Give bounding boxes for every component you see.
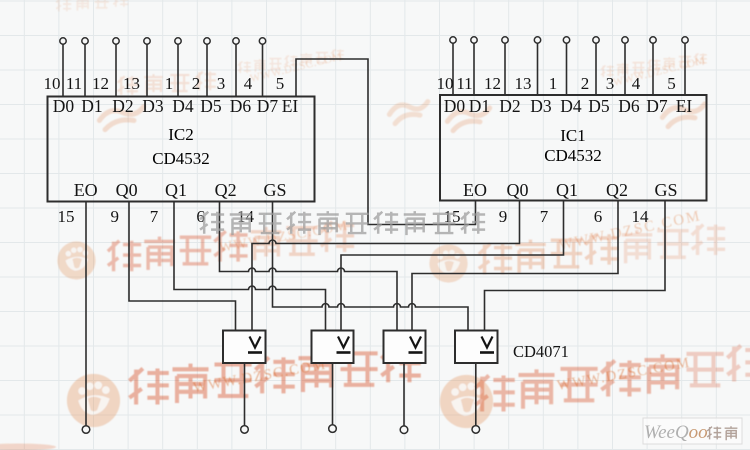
wire IC1 Q2 (pin 6) to gate U3 input B [412, 201, 618, 331]
input terminal and wire, IC1 D1 [471, 37, 477, 95]
wire gate U2 output to terminal [332, 363, 334, 425]
input terminal and wire, IC2 D2 [113, 38, 119, 97]
input terminal and wire, IC2 D7 [259, 38, 265, 97]
wire IC2 Q0 (pin 9) to gate U1 input A [129, 202, 236, 331]
output terminal U1 [241, 426, 249, 434]
svg-text:WeeQoo: WeeQoo [644, 422, 708, 443]
input terminal and wire, IC2 D0 [60, 38, 66, 97]
input terminal and wire, IC2 D3 [144, 38, 150, 97]
IC2 label [152, 125, 210, 168]
wire IC1 Q1 (pin 7) to gate U2 input B [341, 201, 564, 331]
input terminal and wire, IC1 D0 [450, 37, 456, 95]
input terminal and wire, IC1 D5 [593, 37, 599, 95]
OR gate U1 (CD4071) [223, 331, 266, 364]
OR gate U2 (CD4071) [312, 331, 354, 364]
input terminal and wire, IC1 D4 [563, 37, 569, 95]
input terminal and wire, IC2 D5 [204, 38, 210, 97]
input terminal and wire, IC2 D1 [82, 38, 88, 97]
wire IC2 Q1 (pin 7) to gate U2 input A (hops over crossings) [174, 202, 326, 331]
OR gate U4 (CD4071) [455, 331, 498, 364]
wire IC2 GS (pin 14) to gate U4 input A (hops over crossings) [273, 202, 469, 331]
wire gate U3 output to terminal [403, 363, 405, 426]
output terminal U3 [400, 426, 408, 434]
wire gate U4 output to terminal [475, 363, 477, 426]
IC IC1 (CD4532) body [440, 95, 707, 201]
IC IC2 (CD4532) body [48, 97, 315, 202]
wire IC2 Q2 (pin 6) to gate U3 input A (hops over crossings) [220, 202, 398, 331]
wire IC1 GS (pin 14) to gate U4 input B [485, 201, 666, 331]
IC1 label [544, 126, 602, 165]
output terminal U4 [472, 426, 480, 434]
wire IC2 EO (pin 15) to output terminal [85, 202, 87, 426]
input terminal and wire, IC1 D6 [622, 37, 628, 95]
input terminal and wire, IC1 EI [682, 37, 688, 95]
OR gate U3 (CD4071) [384, 331, 426, 364]
input terminal and wire, IC1 D3 [534, 37, 540, 95]
wire gate U1 output to terminal [244, 363, 246, 426]
output terminal U2 [329, 425, 337, 433]
output terminal EO [82, 426, 90, 434]
wire IC1 Q0 (pin 9) to gate U1 input B (hop over IC2 GS wire) [252, 201, 520, 331]
wire cascade: IC1 EO (pin 15) to IC2 EI (pin 5) [296, 59, 476, 225]
input terminal and wire, IC2 D4 [175, 38, 181, 97]
input terminal and wire, IC2 D6 [233, 38, 239, 97]
input terminal and wire, IC1 D2 [502, 37, 508, 95]
input terminal and wire, IC1 D7 [650, 37, 656, 95]
